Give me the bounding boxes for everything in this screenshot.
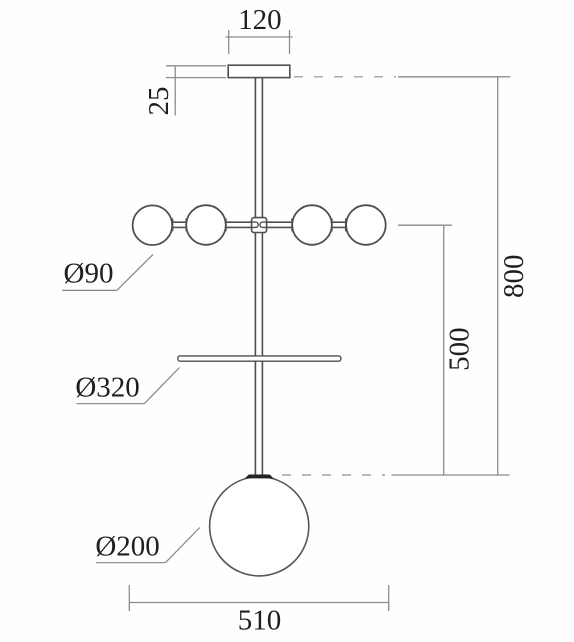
lamp ball 3 — [292, 205, 332, 245]
svg-text:510: 510 — [238, 605, 282, 637]
bottom dashed reference line — [282, 474, 385, 476]
glass globe — [210, 477, 309, 576]
ball arm tube (double line) — [152, 222, 366, 227]
svg-text:Ø320: Ø320 — [75, 372, 139, 404]
svg-text:800: 800 — [498, 255, 530, 299]
dimension line 800 — [497, 77, 499, 475]
hub inner slot left — [252, 222, 259, 227]
svg-text:Ø90: Ø90 — [64, 258, 114, 290]
label Ø200 leader — [96, 528, 200, 563]
top dashed reference line — [294, 76, 396, 78]
dimension 120 extension lines — [226, 30, 293, 54]
svg-text:500: 500 — [443, 327, 475, 371]
hanger rod upper segment — [255, 78, 262, 219]
dimension line 500 — [443, 225, 445, 475]
label Ø320 leader — [76, 368, 179, 404]
lamp ball 4 — [346, 205, 386, 245]
dimension 25 extension lines — [166, 66, 226, 116]
ceiling plate — [228, 65, 290, 77]
lamp ball 1 — [133, 205, 173, 245]
lamp ball 2 — [186, 205, 226, 245]
centre hub block — [252, 218, 267, 233]
arm connector flares — [173, 219, 346, 232]
svg-text:25: 25 — [143, 87, 175, 116]
hanger rod lower segment — [255, 233, 262, 476]
top reference line solid — [398, 76, 510, 78]
hub inner slot right — [260, 222, 267, 227]
svg-text:120: 120 — [238, 4, 282, 36]
bottom reference line solid — [392, 474, 510, 476]
arm level reference line — [398, 224, 452, 226]
middle disc — [178, 356, 341, 361]
svg-text:Ø200: Ø200 — [95, 531, 159, 563]
globe holder cap — [246, 475, 272, 478]
label Ø90 leader — [62, 254, 153, 290]
dimension 510 line — [129, 585, 388, 611]
